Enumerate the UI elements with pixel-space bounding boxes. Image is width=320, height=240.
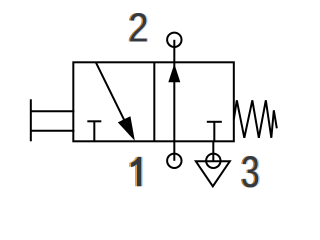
actuator bottom rail bbox=[31, 130, 75, 132]
svg-text:2: 2 bbox=[129, 6, 149, 52]
port 3 stem bbox=[213, 142, 215, 162]
manual push actuator: button bar bbox=[30, 100, 32, 142]
port 1 stem bbox=[174, 142, 176, 162]
left box: blocked port 1 (T symbol) bar bbox=[88, 121, 102, 123]
svg-text:3: 3 bbox=[241, 149, 260, 197]
port label 1 (custom narrow glyph) bbox=[129, 157, 142, 186]
right box: flow path 1->2 vertical line bbox=[174, 63, 176, 142]
port 1 stem inside circle bbox=[174, 154, 176, 161]
return spring bbox=[234, 101, 277, 139]
actuator top rail bbox=[31, 111, 75, 113]
left box: flow path 2->3 diagonal line bbox=[96, 63, 127, 125]
position divider bbox=[154, 63, 156, 142]
port label 2 bbox=[127, 6, 150, 52]
left box: blocked port 1 stem bbox=[94, 122, 96, 142]
right box: blocked port 3 stem bbox=[214, 122, 216, 142]
valve body outline (two position boxes) bbox=[74, 63, 235, 142]
port label 3 bbox=[240, 149, 261, 197]
port 1 connection circle bbox=[167, 154, 181, 168]
left box: arrowhead bbox=[118, 116, 135, 141]
port 2 stem bbox=[174, 41, 176, 63]
port 2 stem inside circle bbox=[174, 40, 176, 47]
port 3 connection circle bbox=[206, 154, 220, 168]
right box: blocked port 3 (T symbol) bar bbox=[207, 121, 222, 123]
port 2 connection circle bbox=[167, 33, 181, 47]
right box: arrowhead up bbox=[169, 64, 181, 83]
port 3 exhaust triangle bbox=[196, 162, 230, 187]
